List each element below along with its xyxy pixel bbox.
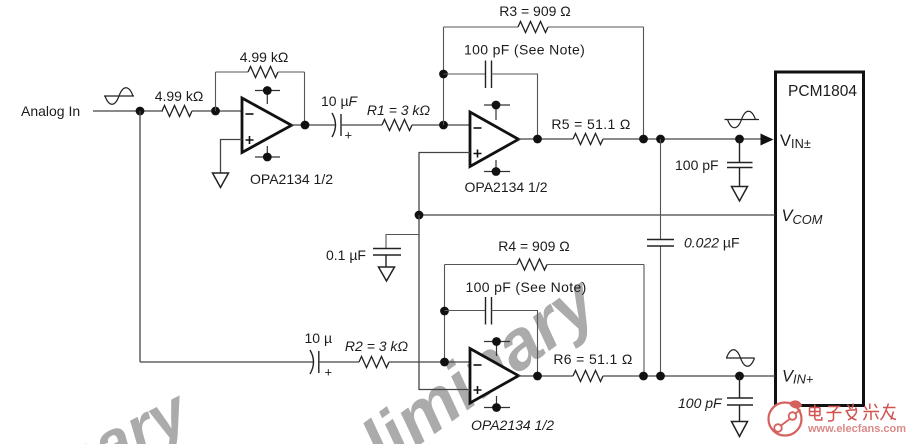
wire R4 right vertical — [643, 265, 645, 377]
svg-text:VIN±: VIN± — [780, 132, 811, 151]
wire bottom branch vertical — [139, 111, 141, 362]
wire R6 to box — [603, 375, 775, 377]
node junction 0.022 top — [656, 135, 665, 144]
capacitor 0.022uF vertical wires — [660, 139, 662, 376]
svg-text:100 pF (See Note): 100 pF (See Note) — [466, 279, 587, 295]
resistor R6 zigzag — [573, 371, 603, 382]
wire feedback1 rail left — [216, 71, 249, 73]
node junction R4 return — [639, 372, 648, 381]
wire VCOM line — [419, 214, 775, 216]
svg-text:Preliminary: Preliminary — [0, 374, 202, 444]
svg-text:4.99 kΩ: 4.99 kΩ — [240, 49, 289, 65]
svg-text:100 pF: 100 pF — [678, 395, 723, 411]
node junction 100pF tap bottom — [440, 307, 449, 316]
resistor 4.99k input zigzag — [162, 106, 192, 117]
svg-text:VIN+: VIN+ — [782, 368, 814, 387]
wire feedback1 right vertical — [304, 72, 306, 125]
node junction opamp2 output — [533, 135, 542, 144]
IC PCM1804 box — [776, 72, 864, 406]
svg-text:R1 = 3 kΩ: R1 = 3 kΩ — [367, 102, 431, 118]
wire analog-in main — [93, 110, 163, 112]
watermark elecfans chinese text — [810, 404, 897, 422]
wire opamp1 output — [292, 124, 337, 126]
svg-text:Analog In: Analog In — [21, 103, 80, 119]
op-amp U3 bottom supply tick — [484, 396, 510, 408]
svg-text:100 pF: 100 pF — [675, 157, 719, 173]
node junction input split — [136, 107, 145, 116]
wire bottom branch horizontal — [140, 361, 314, 363]
svg-text:OPA2134 1/2: OPA2134 1/2 — [465, 179, 548, 195]
capacitor 0.022uF plates — [647, 240, 674, 247]
node junction opamp3 output — [533, 372, 542, 381]
svg-text:R6 = 51.1 Ω: R6 = 51.1 Ω — [553, 351, 632, 367]
op-amp U1 plus sign — [246, 136, 254, 144]
svg-text:0.022 µF: 0.022 µF — [684, 235, 740, 251]
node junction opamp1 output — [301, 121, 310, 130]
node junction 0.022 bottom — [656, 372, 665, 381]
capacitor C100p top plates — [486, 61, 492, 89]
watermark elecfans logo — [769, 400, 803, 435]
wire cap to R1 — [341, 124, 382, 126]
ground vin+ filter — [732, 422, 748, 437]
node junction R3 return — [639, 135, 648, 144]
op-amp U1 top supply tick — [255, 91, 280, 105]
wire R2 to opamp3 — [389, 361, 470, 363]
resistor R3 zigzag — [518, 22, 548, 33]
svg-text:OPA2134 1/2: OPA2134 1/2 — [250, 171, 333, 187]
arrow into VIN+- — [761, 134, 774, 146]
wire opamp2 noninverting — [419, 153, 470, 216]
wire opamp3 noninverting — [419, 389, 470, 391]
op-amp U2 top supply tick — [484, 105, 510, 120]
svg-text:+: + — [325, 365, 333, 380]
wire R3 rail right — [548, 26, 644, 28]
op-amp U3 top supply tick — [484, 342, 510, 357]
resistor R4 zigzag — [517, 259, 547, 270]
op-amp U3 triangle — [470, 349, 519, 404]
svg-text:OPA2134 1/2: OPA2134 1/2 — [471, 417, 554, 433]
wire opamp3 output — [519, 375, 574, 377]
op-amp U1 minus sign — [246, 113, 254, 115]
node junction opamp3 inverting — [440, 358, 449, 367]
source sine symbol VIN+ inverted — [726, 350, 755, 367]
svg-text:+: + — [345, 128, 353, 143]
capacitor C 10u polarized — [310, 350, 319, 374]
node junction opamp2 inverting — [439, 121, 448, 130]
op-amp U3 plus sign — [474, 386, 482, 394]
resistor 4.99k feedback zigzag — [248, 67, 278, 78]
ground 0.1uF — [379, 267, 395, 281]
node junction VCOM vertical — [415, 211, 424, 220]
wire R5 to box — [603, 138, 761, 140]
resistor R1 zigzag — [382, 120, 412, 131]
wire R3 right vertical — [643, 27, 645, 139]
resistor R2 zigzag — [359, 357, 389, 368]
capacitor 0.1uF branch wire — [386, 235, 419, 249]
wire cap to R2 — [319, 361, 359, 363]
wire 100pF bottom right segment — [492, 311, 538, 377]
source sine symbol input — [104, 88, 134, 105]
svg-text:R3 = 909 Ω: R3 = 909 Ω — [499, 3, 571, 19]
op-amp U1 triangle — [242, 98, 292, 153]
wire R1 to opamp2 — [412, 124, 470, 126]
wire feedback1 rail right — [278, 71, 305, 73]
svg-text:R4 = 909 Ω: R4 = 909 Ω — [498, 238, 570, 254]
capacitor 100pF vin+ branch — [727, 376, 753, 422]
svg-text:R2 = 3 kΩ: R2 = 3 kΩ — [345, 338, 409, 354]
svg-text:10 µ: 10 µ — [305, 330, 333, 346]
node junction opamp1 inverting — [211, 107, 220, 116]
ground vin+- filter — [732, 187, 748, 202]
wire R3 rail left — [444, 26, 519, 28]
wire resistor to opamp1 — [192, 110, 242, 112]
svg-text:PCM1804: PCM1804 — [788, 83, 857, 100]
watermark Preliminary partial lower-left — [0, 374, 202, 444]
svg-text:10 µF: 10 µF — [321, 93, 359, 109]
wire feedback1 left vertical — [215, 72, 217, 111]
watermark Preliminary main — [256, 260, 613, 444]
node junction VIN+- filter tap — [735, 135, 744, 144]
wire 100pF top left segment — [444, 73, 486, 75]
svg-text:VCOM: VCOM — [782, 207, 823, 227]
resistor R5 zigzag — [573, 134, 603, 145]
wire 100pF bottom left segment — [445, 310, 486, 312]
capacitor C 10uF polarized — [332, 113, 341, 137]
node junction 100pF tap top — [439, 70, 448, 79]
wire R4 rail right — [547, 264, 644, 266]
op-amp U2 minus sign — [474, 127, 482, 129]
node junction VIN+ filter tap — [735, 372, 744, 381]
capacitor C100p bottom plates — [486, 297, 492, 325]
wire 100pF top right segment — [492, 74, 538, 139]
capacitor 100pF vin+- branch — [727, 139, 753, 187]
op-amp U2 bottom supply tick — [484, 160, 510, 172]
svg-text:R5 = 51.1 Ω: R5 = 51.1 Ω — [551, 116, 630, 132]
wire common vertical — [418, 215, 420, 390]
ground opamp1 — [213, 173, 229, 188]
svg-text:4.99 kΩ: 4.99 kΩ — [155, 88, 204, 104]
capacitor 0.1uF plates — [373, 249, 401, 268]
op-amp U2 triangle — [470, 112, 519, 167]
op-amp U3 minus sign — [474, 364, 482, 366]
wire R4 rail left — [445, 264, 518, 266]
svg-text:www.elecfans.com: www.elecfans.com — [807, 423, 906, 435]
op-amp U1 bottom supply tick — [255, 146, 280, 157]
wire R4 loop left vertical — [444, 265, 446, 363]
op-amp U2 plus sign — [474, 150, 482, 158]
source sine symbol VIN+- — [725, 111, 760, 128]
svg-text:0.1 µF: 0.1 µF — [326, 247, 366, 263]
svg-text:100 pF (See Note): 100 pF (See Note) — [464, 42, 585, 58]
wire R3 loop left vertical — [443, 27, 445, 125]
wire opamp1 noninverting to ground — [221, 140, 243, 174]
wire opamp2 output — [519, 138, 574, 140]
